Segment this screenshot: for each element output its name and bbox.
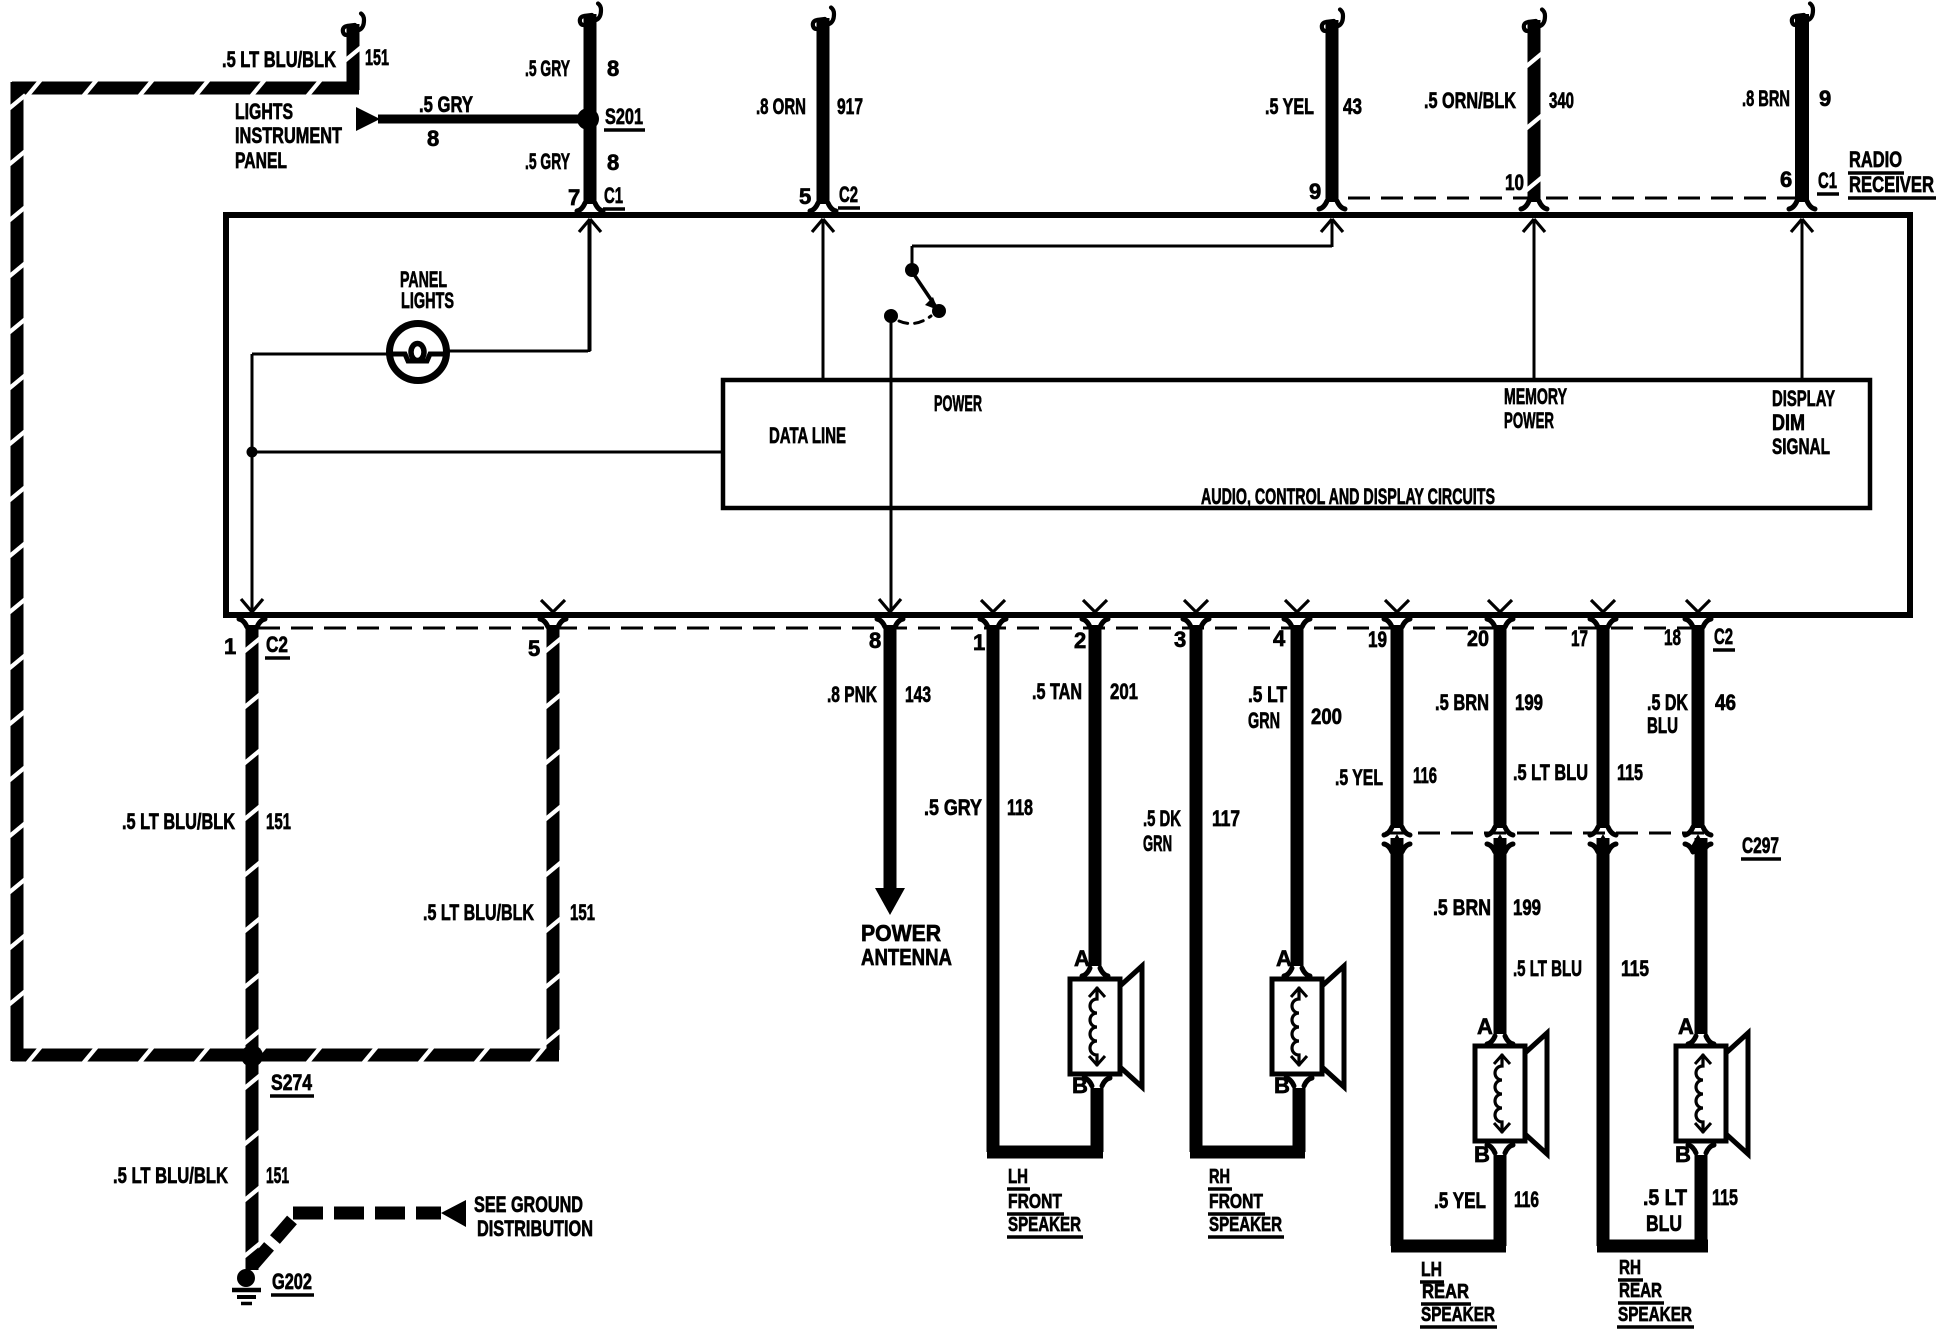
svg-text:.5 GRY: .5 GRY [525, 149, 570, 174]
label 201 [1110, 679, 1138, 704]
label pin 20 bottom [1467, 626, 1489, 651]
svg-text:AUDIO, CONTROL AND DISPLAY CIR: AUDIO, CONTROL AND DISPLAY CIRCUITS [1201, 484, 1495, 509]
wire dashed to ground distribution [252, 1213, 441, 1266]
label 8 (below) [427, 126, 439, 151]
label .5 LT BLU/BLK mid [423, 900, 534, 925]
switch contact dot A [905, 263, 919, 277]
svg-text:.5 BRN: .5 BRN [1435, 690, 1489, 715]
svg-text:.8 PNK: .8 PNK [827, 682, 877, 707]
connector claw pin5 [810, 203, 836, 211]
arrow power antenna [875, 888, 905, 915]
svg-text:143: 143 [905, 682, 931, 707]
svg-text:.5 GRY: .5 GRY [419, 92, 473, 117]
wire RH front B leg [1293, 1088, 1306, 1152]
wire horizontal hatched run into S274 [12, 1047, 559, 1064]
connector claw pin6 [1789, 201, 1815, 209]
wire .5 GRY 8 vertical pin7 C1 [580, 4, 601, 205]
label .5 YEL lower [1434, 1188, 1486, 1213]
svg-text:C297: C297 [1742, 833, 1779, 858]
label 199 upper [1515, 690, 1543, 715]
svg-text:POWER: POWER [861, 920, 941, 946]
label .5 GRY (above) [419, 92, 473, 117]
svg-text:.5 LT: .5 LT [1643, 1185, 1687, 1210]
wire .5 YEL 43 pin9 [1322, 10, 1343, 203]
svg-text:A: A [1074, 946, 1090, 971]
svg-text:GRN: GRN [1143, 831, 1172, 856]
svg-text:PANEL: PANEL [235, 148, 287, 173]
label .8 ORN [756, 94, 806, 119]
wire LH front B leg [1091, 1088, 1104, 1152]
label .5 LT BLU upper [1513, 760, 1588, 785]
svg-text:.8 BRN: .8 BRN [1742, 86, 1790, 111]
label .5 TAN [1032, 679, 1082, 704]
svg-text:.5 GRY: .5 GRY [525, 56, 570, 81]
svg-text:C1: C1 [604, 183, 623, 208]
svg-text:.8 ORN: .8 ORN [756, 94, 806, 119]
svg-text:LH: LH [1008, 1166, 1028, 1188]
wire left edge vertical hatched run [9, 82, 26, 1061]
connector C297 terminal 19 [1384, 827, 1410, 852]
wire .5 LT BLU/BLK 151 top stub with connector hook [343, 14, 364, 91]
wire pin2 .5 TAN 201 to terminal A [1082, 619, 1108, 966]
svg-text:RH: RH [1209, 1166, 1230, 1188]
svg-text:SEE GROUND: SEE GROUND [474, 1192, 583, 1217]
label S274 [270, 1070, 314, 1096]
wire lamp right lead [446, 222, 589, 352]
label 151 left [266, 809, 291, 834]
label pin 1b bottom [973, 630, 985, 655]
svg-text:.5 LT BLU: .5 LT BLU [1513, 956, 1582, 981]
wire pin19 .5 YEL 116 upper [1384, 619, 1410, 828]
label .8 BRN [1742, 86, 1790, 111]
svg-text:18: 18 [1664, 625, 1681, 650]
label .5 DK BLU [1647, 690, 1688, 738]
arrow into pin7 + stem to panel lamp [579, 219, 601, 351]
label 8 lower [607, 150, 619, 175]
label DISPLAY DIM SIGNAL [1772, 386, 1835, 459]
connector C297 dashed line [1385, 832, 1710, 835]
wire pin1 C2 .5 LT BLU/BLK 151 down [239, 619, 265, 1056]
svg-text:B: B [1072, 1073, 1088, 1098]
label 151 [365, 45, 389, 70]
wire .8 PNK 143 power antenna [877, 619, 903, 889]
svg-text:G202: G202 [272, 1269, 312, 1294]
label pin 5 [799, 184, 811, 209]
label 917 [837, 94, 863, 119]
label 117 [1212, 806, 1240, 831]
label .5 LT BLU/BLK left [122, 809, 235, 834]
svg-text:151: 151 [365, 45, 389, 70]
svg-text:116: 116 [1413, 763, 1437, 788]
svg-text:115: 115 [1617, 760, 1643, 785]
connector chevron pin1 [981, 600, 1005, 615]
svg-text:SPEAKER: SPEAKER [1421, 1304, 1495, 1326]
label pin 18 bottom [1664, 625, 1681, 650]
svg-text:43: 43 [1343, 94, 1362, 119]
svg-text:201: 201 [1110, 679, 1138, 704]
svg-text:.5 YEL: .5 YEL [1335, 765, 1383, 790]
connector chevron pin18 [1686, 600, 1710, 615]
ground G202 [232, 1269, 261, 1304]
svg-text:LIGHTS: LIGHTS [235, 99, 293, 124]
label pin 6 [1780, 167, 1792, 192]
svg-text:DIM: DIM [1772, 410, 1805, 435]
terminal B RH rear [1675, 1142, 1714, 1167]
wire pin20 .5 BRN 199 upper [1487, 619, 1513, 828]
wire pin4 .5 LT GRN 200 to terminal A [1284, 619, 1310, 966]
svg-text:6: 6 [1780, 167, 1792, 192]
wire .8 BRN 9 pin6 C1 [1792, 4, 1813, 203]
label SEE GROUND DISTRIBUTION [474, 1192, 593, 1241]
label .5 GRY lower [525, 149, 570, 174]
label 115 upper [1617, 760, 1643, 785]
speaker LH rear [1475, 1033, 1547, 1154]
terminal B LH front [1072, 1073, 1110, 1098]
svg-text:FRONT: FRONT [1209, 1191, 1263, 1213]
wire switch feed from pin9 [912, 246, 1332, 266]
svg-text:118: 118 [1007, 795, 1033, 820]
label .5 GRY upper [525, 56, 570, 81]
wire S274 to G202 .5 LT BLU/BLK 151 [244, 1062, 261, 1270]
svg-text:340: 340 [1549, 88, 1574, 113]
label pin 19 bottom [1368, 627, 1387, 652]
svg-text:19: 19 [1368, 627, 1387, 652]
label .5 LT GRN [1248, 682, 1287, 733]
connector chevron pin4 [1285, 600, 1309, 615]
splice S201 [577, 108, 599, 130]
svg-text:.5 YEL: .5 YEL [1434, 1188, 1486, 1213]
svg-text:FRONT: FRONT [1008, 1191, 1062, 1213]
speaker LH front [1070, 966, 1142, 1087]
wire pin5 .5 LT BLU/BLK 151 down [540, 619, 566, 1050]
svg-text:20: 20 [1467, 626, 1489, 651]
label 151 mid [570, 900, 595, 925]
svg-text:.5 LT: .5 LT [1248, 682, 1287, 707]
svg-text:7: 7 [568, 185, 580, 210]
audio control and display circuits box [723, 380, 1870, 508]
connector chevron pin3 [1184, 600, 1208, 615]
speaker RH front [1272, 966, 1344, 1087]
wire .5 LT BLU 115 lower left leg [1597, 838, 1708, 1246]
svg-text:1: 1 [973, 630, 985, 655]
label 143 [905, 682, 931, 707]
svg-text:S201: S201 [605, 104, 643, 129]
label .5 YEL [1265, 94, 1314, 119]
node data line junction [247, 447, 258, 458]
terminal A LH front [1074, 946, 1108, 976]
svg-text:A: A [1678, 1014, 1694, 1039]
label C1 right [1817, 168, 1839, 194]
label 199 lower [1513, 895, 1541, 920]
label pin 4 bottom [1273, 626, 1286, 651]
svg-text:C2: C2 [1714, 624, 1733, 649]
svg-text:9: 9 [1309, 179, 1321, 204]
label .5 BRN lower [1433, 895, 1491, 920]
label LH REAR SPEAKER [1420, 1259, 1497, 1327]
connector chevron pin19 [1385, 600, 1409, 615]
label .5 LT BLU/BLK bottom [113, 1163, 228, 1188]
label .5 BRN upper [1435, 690, 1489, 715]
arrow down into pin8 [879, 599, 901, 612]
svg-text:LH: LH [1421, 1259, 1442, 1281]
splice S274 [241, 1045, 263, 1067]
label C297 [1741, 833, 1781, 859]
terminal B LH rear [1474, 1142, 1513, 1167]
svg-text:REAR: REAR [1619, 1280, 1662, 1302]
arrow into pin9 + stem [1321, 219, 1343, 247]
svg-text:B: B [1274, 1073, 1290, 1098]
svg-text:BLU: BLU [1646, 1211, 1682, 1236]
label .5 DK GRN [1143, 806, 1181, 856]
svg-text:B: B [1474, 1142, 1490, 1167]
wire data line lead [252, 451, 723, 454]
svg-text:917: 917 [837, 94, 863, 119]
svg-text:INSTRUMENT: INSTRUMENT [235, 123, 342, 148]
wire .5 ORN/BLK 340 pin10 [1524, 10, 1545, 203]
svg-text:4: 4 [1273, 626, 1286, 651]
svg-text:SPEAKER: SPEAKER [1618, 1304, 1692, 1326]
label 115 bottom [1712, 1185, 1738, 1210]
radio receiver box outline [226, 215, 1910, 615]
svg-text:.5 LT BLU/BLK: .5 LT BLU/BLK [122, 809, 235, 834]
arrow into pin10 + stem to MEMORY POWER [1523, 219, 1545, 380]
arrow LIGHTS feed triangle [356, 107, 380, 131]
label .5 LT BLU/BLK [222, 47, 336, 72]
terminal A RH rear [1678, 1014, 1714, 1044]
label .5 YEL rear upper [1335, 765, 1383, 790]
arrow into pin5 + stem to inner box [812, 219, 834, 380]
wire pin3 .5 DK GRN 117 left leg [1183, 619, 1305, 1152]
svg-text:C2: C2 [266, 632, 288, 657]
svg-text:151: 151 [266, 809, 291, 834]
label .5 LT BLU lower mid [1513, 956, 1582, 981]
label 46 [1715, 690, 1736, 715]
label POWER [934, 391, 982, 416]
svg-text:.5 LT BLU/BLK: .5 LT BLU/BLK [222, 47, 336, 72]
wire RH rear B leg [1695, 1155, 1708, 1246]
svg-text:REAR: REAR [1422, 1281, 1469, 1303]
svg-text:5: 5 [799, 184, 811, 209]
wire switch common down to pin8 [890, 322, 893, 610]
svg-text:8: 8 [607, 56, 619, 81]
svg-text:A: A [1276, 946, 1292, 971]
svg-text:.5 ORN/BLK: .5 ORN/BLK [1424, 88, 1516, 113]
svg-text:199: 199 [1515, 690, 1543, 715]
connector C2 dashed line bottom [258, 627, 1692, 630]
connector chevron pin20 [1488, 600, 1512, 615]
speaker RH rear [1676, 1033, 1748, 1154]
arrow into pin6 + stem to DISPLAY DIM [1791, 219, 1813, 380]
label 200 [1311, 704, 1342, 729]
svg-text:115: 115 [1621, 956, 1649, 981]
label 340 [1549, 88, 1574, 113]
wire pin1 .5 GRY 118 left leg [980, 619, 1103, 1152]
label PANEL LIGHTS [400, 267, 454, 313]
label C2 [838, 182, 860, 208]
label pin 10 [1505, 170, 1524, 195]
svg-text:C1: C1 [1818, 168, 1837, 193]
wire .5 GRY 8 horizontal to splice [378, 115, 590, 124]
connector C297 terminal 17 [1590, 827, 1616, 852]
svg-text:.5 DK: .5 DK [1647, 690, 1688, 715]
connector C1 dashed line [1348, 197, 1795, 200]
svg-text:SPEAKER: SPEAKER [1008, 1214, 1081, 1236]
label .5 GRY speaker [924, 795, 982, 820]
svg-text:8: 8 [607, 150, 619, 175]
svg-text:115: 115 [1712, 1185, 1738, 1210]
label pin 8 bottom [869, 628, 881, 653]
svg-text:RADIO: RADIO [1849, 147, 1902, 172]
svg-text:MEMORY: MEMORY [1504, 384, 1567, 409]
wire pin18 .5 DK BLU 46 upper [1685, 619, 1711, 828]
svg-text:ANTENNA: ANTENNA [861, 944, 952, 970]
svg-text:1: 1 [224, 634, 236, 659]
svg-text:BLU: BLU [1647, 713, 1678, 738]
svg-text:DISPLAY: DISPLAY [1772, 386, 1835, 411]
switch travel dashed arc [899, 316, 931, 324]
connector claw pin7 [577, 203, 603, 211]
svg-text:B: B [1675, 1142, 1691, 1167]
svg-text:POWER: POWER [934, 391, 982, 416]
label G202 [271, 1269, 314, 1295]
label pin 9 [1309, 179, 1321, 204]
label DATA LINE [769, 423, 846, 448]
svg-text:DATA LINE: DATA LINE [769, 423, 846, 448]
svg-text:116: 116 [1514, 1187, 1539, 1212]
label .5 ORN/BLK [1424, 88, 1516, 113]
label LIGHTS INSTRUMENT PANEL [235, 99, 342, 173]
arrow down into pin1 C2 [241, 599, 263, 612]
label MEMORY POWER [1504, 384, 1567, 433]
label 9 (circuit) [1819, 86, 1831, 111]
terminal B RH front [1274, 1073, 1312, 1098]
wire horizontal hatched run to left edge [12, 80, 359, 97]
label RH REAR SPEAKER [1617, 1257, 1694, 1327]
label pin 3 bottom [1174, 627, 1186, 652]
switch common dot [884, 309, 898, 323]
switch blade end dot [932, 304, 946, 318]
wire pin17 .5 LT BLU 115 upper [1590, 619, 1616, 828]
svg-text:C2: C2 [839, 182, 858, 207]
terminal A RH front [1276, 946, 1310, 976]
svg-text:.5 LT BLU/BLK: .5 LT BLU/BLK [423, 900, 534, 925]
label POWER ANTENNA [861, 920, 952, 970]
connector C297 terminal 20 [1487, 827, 1513, 852]
label pin 1 bottom [224, 634, 236, 659]
label AUDIO CONTROL AND DISPLAY CIRCUITS [1201, 484, 1495, 509]
wire LH rear B leg [1494, 1155, 1507, 1246]
label pin 7 [568, 185, 580, 210]
svg-text:.5 YEL: .5 YEL [1265, 94, 1314, 119]
svg-text:151: 151 [266, 1163, 289, 1188]
wire .8 ORN 917 pin5 C2 [813, 8, 834, 205]
label 8 upper [607, 56, 619, 81]
svg-text:151: 151 [570, 900, 595, 925]
svg-text:8: 8 [869, 628, 881, 653]
label RH FRONT SPEAKER [1208, 1166, 1284, 1237]
svg-text:RH: RH [1619, 1257, 1641, 1279]
svg-text:RECEIVER: RECEIVER [1849, 172, 1934, 197]
svg-text:LIGHTS: LIGHTS [401, 288, 454, 313]
label .5 LT BLU bottom [1643, 1185, 1687, 1236]
svg-text:GRN: GRN [1248, 708, 1280, 733]
label 118 [1007, 795, 1033, 820]
svg-text:199: 199 [1513, 895, 1541, 920]
label 116 lower [1514, 1187, 1539, 1212]
svg-text:17: 17 [1571, 626, 1588, 651]
svg-text:.5 BRN: .5 BRN [1433, 895, 1491, 920]
wire .5 BRN 199 lower to terminal A [1494, 838, 1507, 1034]
connector chevron pin17 [1591, 600, 1615, 615]
svg-text:.5 LT BLU: .5 LT BLU [1513, 760, 1588, 785]
label 151 bottom [266, 1163, 289, 1188]
label 116 upper [1413, 763, 1437, 788]
svg-text:.5 LT BLU/BLK: .5 LT BLU/BLK [113, 1163, 228, 1188]
label pin 17 bottom [1571, 626, 1588, 651]
connector claw pin10 [1521, 201, 1547, 209]
lamp panel lights [390, 324, 447, 381]
label pin 5 bottom [528, 636, 540, 661]
svg-text:10: 10 [1505, 170, 1524, 195]
svg-text:S274: S274 [271, 1070, 313, 1095]
wire .5 DK BLU 46 lower to terminal A [1695, 838, 1708, 1034]
svg-text:SIGNAL: SIGNAL [1772, 434, 1830, 459]
connector chevron pin2 [1083, 600, 1107, 615]
svg-text:5: 5 [528, 636, 540, 661]
switch blade with arrow [913, 273, 938, 310]
svg-text:.5 GRY: .5 GRY [924, 795, 982, 820]
svg-text:46: 46 [1715, 690, 1736, 715]
svg-text:DISTRIBUTION: DISTRIBUTION [477, 1216, 593, 1241]
label 115 lower mid [1621, 956, 1649, 981]
wire lamp left lead [252, 354, 390, 610]
label LH FRONT SPEAKER [1007, 1166, 1083, 1237]
terminal A LH rear [1477, 1014, 1513, 1044]
arrow see ground distribution [441, 1200, 466, 1227]
svg-text:SPEAKER: SPEAKER [1209, 1214, 1282, 1236]
svg-text:200: 200 [1311, 704, 1342, 729]
label C2 bottom right [1713, 624, 1735, 650]
connector chevron pin5 [541, 600, 565, 615]
svg-text:A: A [1477, 1014, 1493, 1039]
svg-text:117: 117 [1212, 806, 1240, 831]
svg-text:8: 8 [427, 126, 439, 151]
label 43 [1343, 94, 1362, 119]
svg-text:9: 9 [1819, 86, 1831, 111]
label .8 PNK [827, 682, 877, 707]
svg-text:.5 TAN: .5 TAN [1032, 679, 1082, 704]
svg-text:3: 3 [1174, 627, 1186, 652]
wire .5 YEL 116 lower left leg [1391, 838, 1506, 1246]
label S201 [604, 104, 645, 130]
label C1 [603, 183, 625, 209]
label RADIO RECEIVER [1848, 147, 1936, 198]
label C2 bottom left [265, 632, 290, 658]
svg-text:.5 DK: .5 DK [1143, 806, 1181, 831]
connector C297 terminal 18 [1685, 827, 1711, 852]
svg-text:2: 2 [1074, 628, 1086, 653]
label pin 2 bottom [1074, 628, 1086, 653]
svg-text:POWER: POWER [1504, 408, 1554, 433]
connector claw pin9 [1319, 201, 1345, 209]
